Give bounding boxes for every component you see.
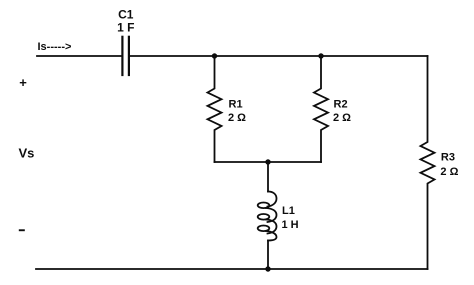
inductor L1 xyxy=(258,162,277,269)
svg-text:+: + xyxy=(19,75,27,90)
node D: junction dot L1 bottom xyxy=(265,266,270,271)
svg-text:1 H: 1 H xyxy=(282,219,299,231)
svg-text:2 Ω: 2 Ω xyxy=(333,112,351,124)
svg-text:R1: R1 xyxy=(229,98,243,110)
resistor R1 xyxy=(208,56,222,162)
svg-text:L1: L1 xyxy=(282,205,295,217)
svg-text:1 F: 1 F xyxy=(117,21,134,35)
node B: junction dot R2 top xyxy=(318,53,323,58)
svg-text:C1: C1 xyxy=(118,8,134,22)
svg-text:2 Ω: 2 Ω xyxy=(440,166,458,178)
svg-text:Is----->: Is-----> xyxy=(38,41,72,53)
svg-text:Vs: Vs xyxy=(19,145,35,160)
wire top-right segment xyxy=(130,55,428,57)
wire middle (R1 bottom to R2 bottom) xyxy=(215,161,322,163)
wire top-left segment xyxy=(37,55,122,57)
svg-text:R2: R2 xyxy=(334,98,348,110)
capacitor C1 xyxy=(122,37,128,75)
resistor R3 xyxy=(421,56,435,269)
resistor R2 xyxy=(314,56,328,162)
node C: junction dot L1 top xyxy=(265,159,270,164)
node A: junction dot R1 top xyxy=(212,53,217,58)
svg-text:2 Ω: 2 Ω xyxy=(228,112,246,124)
svg-text:R3: R3 xyxy=(441,151,455,163)
label minus terminal xyxy=(19,229,25,231)
wire bottom xyxy=(36,268,428,270)
